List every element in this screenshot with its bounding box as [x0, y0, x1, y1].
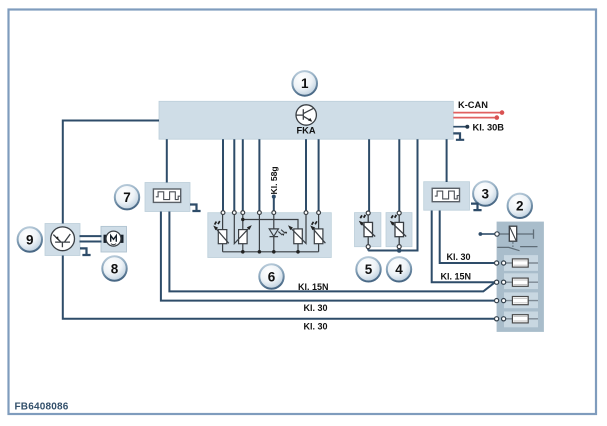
wire branch to R3 — [243, 220, 298, 229]
node junction below block 4 — [397, 248, 402, 253]
wire block 7 left bottom, Kl.30 line B to fuse 3 — [161, 212, 494, 301]
marks sensor 5 — [360, 215, 365, 218]
callout circle 5 — [356, 257, 380, 281]
waveform icon in block 3 — [432, 188, 459, 201]
wire pair block 9 to motor 8 upper — [80, 235, 102, 237]
wire FKA down to bottom of blocks 5 and 4 — [368, 139, 417, 250]
fuse row window 3 — [504, 292, 538, 308]
svg-text:5: 5 — [365, 262, 373, 277]
svg-text:FKA: FKA — [296, 126, 315, 136]
wire block 7 right bottom, Kl.15N line A to fuse 2 — [169, 212, 494, 292]
arrowhead LED2 — [285, 232, 287, 234]
pin circle relay — [495, 232, 499, 236]
fuse row window 2 — [504, 273, 538, 289]
svg-text:Kl. 30: Kl. 30 — [447, 252, 471, 262]
callout circle 4 — [387, 257, 411, 281]
node Kl.30B arrow dot — [465, 125, 469, 129]
ground at block 3 — [471, 204, 482, 211]
wire K-CAN high red — [453, 112, 500, 114]
callout circle 8 — [102, 256, 126, 280]
fuse F4 — [505, 315, 539, 323]
box 4 sensor — [386, 213, 412, 247]
wire pair block 9 to motor 8 lower — [80, 241, 102, 243]
svg-text:K-CAN: K-CAN — [458, 100, 488, 110]
pin circles fuse F3 — [495, 299, 499, 303]
pin circles block 5 — [366, 211, 370, 215]
marks R4 temperature — [312, 221, 317, 225]
wire FKA left to node of block 9 — [63, 121, 159, 224]
svg-text:Kl. 30: Kl. 30 — [304, 322, 328, 332]
callout circle 3 — [473, 181, 497, 205]
arrowhead R4 — [310, 225, 315, 230]
wire block 3 right bottom Kl.30 to fuse 1 — [440, 211, 495, 264]
callout circle 1 — [292, 71, 317, 96]
LED D1 — [269, 215, 278, 252]
node dot branch R2 — [241, 218, 244, 221]
svg-text:Kl. 15N: Kl. 15N — [298, 282, 329, 292]
wire K-CAN low red — [453, 117, 495, 119]
box 7 output stage — [145, 183, 190, 212]
callout circle 2 — [508, 194, 532, 218]
wire FKA to block 3 — [446, 139, 448, 182]
marks R1 temperature — [215, 221, 220, 225]
svg-text:1: 1 — [301, 76, 309, 91]
callout circle 9 — [18, 227, 42, 251]
box 6 sensor block — [208, 213, 331, 258]
svg-text:Kl. 30B: Kl. 30B — [473, 122, 505, 132]
fuse F3 — [505, 297, 539, 305]
op-amp icon transistor in FKA — [296, 105, 316, 125]
svg-text:8: 8 — [111, 261, 119, 276]
block 6 internals — [215, 215, 326, 252]
node K-CAN low dot — [495, 115, 500, 120]
wire Kl.58g stub to block 6 pin 5 — [273, 197, 275, 211]
node dot bus R3 — [296, 250, 300, 254]
wire FKA to block 6 pin 4 — [258, 139, 260, 211]
arrowhead R3 — [288, 225, 293, 230]
pin circles fuse F1 — [495, 261, 499, 265]
waveform icon in block 7 — [153, 189, 180, 202]
svg-text:6: 6 — [268, 269, 276, 284]
wire Kl.30B — [453, 126, 465, 128]
resistor R1 — [218, 230, 227, 244]
box 9 blower output stage — [45, 224, 80, 256]
transistor icon in block 9 — [51, 227, 75, 251]
relay switch contact — [497, 247, 537, 251]
svg-text:2: 2 — [516, 199, 524, 214]
resistor R3 — [294, 229, 303, 244]
arrowhead LED1 — [282, 234, 284, 236]
fuse row window 1 — [504, 255, 538, 271]
arrowhead block 9 icon — [56, 236, 59, 240]
box 3 output stage — [424, 182, 470, 211]
motor M in block 8 — [104, 231, 124, 246]
wire R2 top leg with branch — [242, 215, 244, 252]
resistor R2 — [239, 230, 248, 244]
block 5 internals: NTC sensor — [361, 215, 376, 245]
wire FKA to block 6 pin 3 — [242, 139, 244, 211]
block 4 internals: NTC sensor — [392, 215, 407, 245]
relay in block 2 — [497, 226, 534, 241]
wire FKA to block 7 — [166, 139, 168, 182]
wire FKA to block 6 pin 7 — [318, 139, 320, 211]
svg-text:FB6408086: FB6408086 — [15, 402, 69, 413]
callout circle 7 — [115, 185, 139, 209]
ground at block 7 — [190, 205, 201, 212]
node dot bus R2 — [241, 250, 245, 254]
transistor arrowhead in FKA icon — [308, 118, 312, 122]
wire FKA to block 5 top — [368, 139, 370, 211]
ground at FKA right — [453, 133, 464, 139]
node K-CAN high dot — [500, 110, 505, 115]
node relay feed dot — [479, 232, 483, 236]
relay actuator dashed link — [512, 242, 514, 247]
pin circles fuse F4 — [495, 317, 499, 321]
resistor R4 — [318, 215, 320, 252]
ground at block 9 — [80, 248, 91, 255]
node dot bus LED — [272, 250, 276, 254]
wire FKA to block 4 top — [398, 139, 400, 211]
wire FKA to block 6 pin 6 — [305, 139, 307, 211]
fuse F1 — [505, 259, 539, 267]
fuse F2 — [505, 278, 539, 286]
fuse row window 4 — [504, 312, 538, 328]
pin circles fuse F2 — [495, 280, 499, 284]
wire relay feed — [480, 233, 495, 235]
wire return pin 4 — [258, 215, 260, 252]
box 5 sensor — [355, 213, 381, 247]
arrowhead sensor 5 — [359, 221, 364, 226]
wire FKA to block 6 pin 1 — [222, 139, 224, 211]
svg-text:3: 3 — [482, 186, 490, 201]
box FKA control unit U1 — [159, 101, 453, 139]
node Kl.58g dot — [272, 195, 276, 199]
wire R1 legs — [222, 215, 224, 252]
arrowhead R1 — [213, 226, 218, 231]
LED arrows — [278, 230, 285, 235]
arrowhead sensor 4 — [390, 221, 395, 226]
wire bottom bus — [223, 251, 319, 253]
arrowhead R2 — [247, 225, 252, 230]
svg-text:7: 7 — [123, 190, 131, 205]
svg-text:9: 9 — [26, 232, 34, 247]
box 2 fuse and relay carrier — [497, 222, 544, 332]
callout circle 6 — [259, 264, 283, 288]
wire block 9 bottom down and Kl.30 line C to fuse 4 — [63, 256, 495, 319]
box 8 blower motor — [101, 226, 127, 252]
svg-text:Kl. 30: Kl. 30 — [304, 303, 328, 313]
node dot bus return — [258, 250, 262, 254]
wire FKA to block 6 pin 2 — [233, 139, 235, 211]
pin circles block 4 — [397, 211, 401, 215]
svg-text:Kl. 15N: Kl. 15N — [441, 271, 472, 281]
svg-text:Kl. 58g: Kl. 58g — [269, 166, 279, 194]
marks sensor 4 — [391, 215, 396, 218]
svg-text:4: 4 — [395, 262, 403, 277]
wire block 3 left bottom Kl.15N to fuse 2 — [432, 211, 495, 283]
pin circles block 6 — [221, 211, 320, 215]
